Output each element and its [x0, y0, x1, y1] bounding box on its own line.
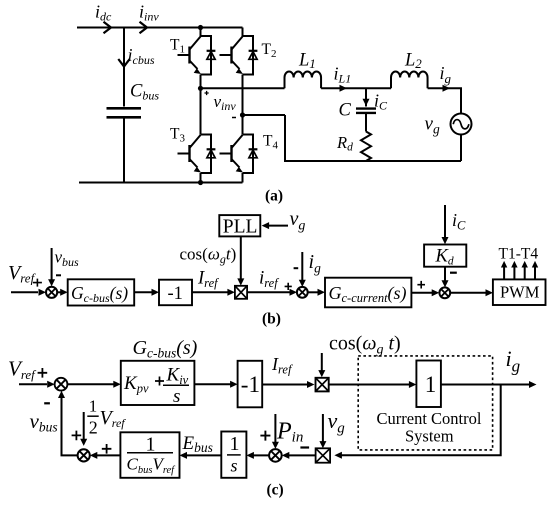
- block G_c-current(s): [325, 278, 411, 308]
- svg-text:(c): (c): [267, 482, 284, 499]
- arrows: PWM gate outputs: [501, 261, 538, 280]
- block 1: [416, 361, 441, 408]
- node - output (v_inv minus): [240, 112, 245, 117]
- label minus: [450, 272, 457, 274]
- wire: sum1 to Gc-bus: [57, 291, 61, 293]
- node: summing junction c3: [78, 449, 90, 461]
- wire: PLL to multiplier: [240, 237, 242, 279]
- svg-text:PLL: PLL: [223, 216, 258, 237]
- svg-text:T1-T4: T1-T4: [499, 246, 539, 263]
- wire: -1 to multiplier: [192, 291, 228, 293]
- wire: i_g input: [301, 252, 303, 281]
- wire: node C to L2: [366, 87, 391, 89]
- wire: C_bus branch upper: [123, 28, 125, 107]
- wire: C branch top: [365, 88, 367, 106]
- wire: block1 output i_g: [441, 384, 530, 386]
- node: bottom rail / left leg junction: [198, 180, 203, 185]
- wire: multiplier c2 to sum c2: [288, 454, 316, 456]
- wire: i_g feedback: [341, 385, 501, 456]
- node: summing junction c1: [55, 378, 68, 391]
- wire: C_bus branch lower: [123, 117, 125, 182]
- wire: sum c2 to 1/s: [253, 454, 270, 456]
- svg-text:cos(ωgt): cos(ωgt): [180, 245, 237, 267]
- wire: K_d to sum3: [444, 266, 446, 281]
- transistor T1 (IGBT with diode): [178, 28, 216, 75]
- arrow i_C (solid down): [363, 99, 370, 106]
- wire: left leg middle: [200, 75, 202, 135]
- label plus: [285, 283, 292, 290]
- svg-text:s: s: [231, 456, 238, 476]
- dashed box: current control system: [358, 356, 492, 450]
- wire: Gc-bus to -1: [134, 291, 152, 293]
- node: multiplier b1 (box X): [235, 286, 247, 299]
- label plus: [417, 281, 425, 289]
- transistor T4 (IGBT with diode): [220, 135, 258, 174]
- svg-text:1: 1: [89, 397, 98, 416]
- wire: bottom DC rail: [79, 182, 243, 184]
- wire: sum c3 to v_bus feedback up: [62, 397, 78, 455]
- svg-text:(a): (a): [265, 188, 283, 205]
- wire: half Vref to sum c3: [83, 412, 85, 440]
- block G_c-bus(s): [68, 279, 135, 305]
- inductor L2: [391, 71, 428, 88]
- wire: Kpv block to -1: [194, 383, 231, 385]
- label plus: [72, 431, 82, 441]
- wire: input to sum1: [11, 291, 38, 293]
- block K_d: [424, 245, 466, 268]
- block 1/s: [221, 432, 246, 478]
- wire: Gc-current to sum3: [411, 292, 432, 294]
- transistor T2 (IGBT with diode): [220, 28, 258, 75]
- wire: cos to multiplier c1: [321, 353, 323, 371]
- label minus sign: [232, 117, 236, 119]
- wire: sum3 to PWM: [450, 292, 486, 294]
- label minus: [56, 274, 61, 276]
- wire: plus node to L1: [201, 87, 285, 89]
- block -1: [159, 280, 192, 306]
- arrow i_inv (chevron): [140, 22, 148, 33]
- ac source v_g: [451, 114, 472, 135]
- block Kpv + Kiv/s: [121, 361, 195, 407]
- arrow i_cbus (chevron down): [118, 59, 129, 67]
- label plus: [33, 279, 42, 287]
- block 1/(Cbus Vref): [120, 432, 179, 478]
- arrow i_g (solid): [443, 85, 451, 92]
- wire: i_C input: [444, 205, 446, 238]
- wire: sum2 to Gc-current: [308, 291, 318, 293]
- arrow i_L1 (solid): [340, 85, 348, 92]
- inductor L1: [285, 71, 322, 88]
- svg-text:1: 1: [230, 433, 240, 455]
- wire: L2 to grid corner: [428, 88, 461, 113]
- node: summing junction c2: [269, 449, 282, 462]
- label minus: [294, 267, 299, 269]
- capacitor C_bus plates: [107, 108, 142, 117]
- node: top rail / left leg junction: [198, 25, 203, 30]
- svg-text:s: s: [173, 386, 180, 407]
- wire: left leg bottom: [200, 173, 202, 183]
- svg-text:C: C: [339, 101, 352, 121]
- capacitor C plates: [356, 109, 376, 113]
- resistor Rd zigzag: [361, 113, 371, 161]
- wire: P_in to sum c2: [274, 414, 276, 443]
- block PWM: [493, 279, 546, 305]
- wire: v_bus input: [51, 248, 53, 280]
- wire: input to sum c1: [19, 383, 47, 385]
- label plus: [260, 431, 270, 441]
- label plus sign: [205, 91, 209, 95]
- svg-text:(b): (b): [262, 311, 281, 328]
- label minus: [300, 446, 309, 448]
- node: summing junction b2: [297, 287, 308, 298]
- node: multiplier c1 (box X): [316, 378, 329, 392]
- arrow i_dc (chevron): [104, 22, 112, 33]
- label 1/2 V_ref: [87, 397, 126, 438]
- svg-text:Current Control: Current Control: [377, 409, 482, 428]
- wire: sum c1 to Kpv block: [67, 383, 113, 385]
- wire: v_g to multiplier c2: [322, 414, 324, 442]
- svg-text:1: 1: [425, 372, 437, 397]
- label minus: [44, 402, 50, 404]
- svg-text:-1: -1: [241, 372, 260, 397]
- block PLL: [219, 215, 260, 237]
- svg-text:-1: -1: [168, 284, 183, 304]
- wire: 1/s to 1/CV block (E_bus): [186, 454, 221, 456]
- block -1 (c): [238, 361, 263, 408]
- label plus: [102, 444, 112, 454]
- node + output (v_inv plus): [198, 86, 203, 91]
- svg-text:System: System: [405, 427, 454, 446]
- node: multiplier c2 (box X): [316, 448, 331, 462]
- svg-text:2: 2: [89, 418, 98, 438]
- wire: bottom filter rail: [243, 115, 462, 161]
- node: summing junction b1: [46, 287, 57, 298]
- svg-text:PWM: PWM: [500, 283, 540, 302]
- wire: right leg middle: [242, 75, 244, 135]
- wire: L1 to node C: [321, 87, 366, 89]
- label plus: [38, 368, 48, 378]
- wire: right leg bottom: [242, 173, 244, 183]
- transistor T3 (IGBT with diode): [178, 135, 216, 174]
- wire: 1/CV to sum c3: [96, 454, 120, 456]
- wire: top DC rail: [77, 27, 243, 29]
- wire: source bottom: [460, 135, 462, 162]
- wire: -1 to multiplier c1: [262, 384, 308, 386]
- wire: multiplier to sum2: [247, 291, 290, 293]
- wire: v_g to PLL: [268, 225, 288, 227]
- svg-text:cos(ωg t): cos(ωg t): [329, 333, 401, 358]
- node: summing junction b3: [439, 287, 450, 298]
- wire: multiplier c1 to block 1: [329, 384, 410, 386]
